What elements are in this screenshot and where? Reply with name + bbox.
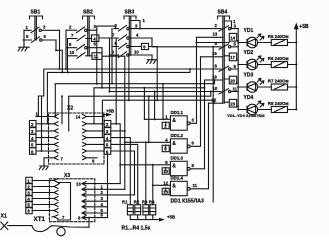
socket X2 left pin stubs 2-6 <box>36 124 49 151</box>
svg-text:3: 3 <box>101 196 104 201</box>
wire SB4 right common vertical <box>237 29 239 110</box>
switch SB1 stem <box>35 16 37 40</box>
wire SB3 row3 to H7 <box>156 47 158 101</box>
gate DD1.2 output wire <box>190 57 200 147</box>
svg-text:5: 5 <box>31 143 34 148</box>
wire SB2 row3 down <box>101 48 103 88</box>
wire X2 right bus down to X3 <box>107 154 109 217</box>
switch SB2 stem <box>88 16 90 56</box>
svg-text:1: 1 <box>165 114 168 119</box>
socket X2 right contact chevrons <box>83 115 105 160</box>
wire X2 row6 right to X3 <box>111 151 135 195</box>
svg-text:+5В: +5В <box>167 214 175 219</box>
wire H2 bus <box>47 69 190 124</box>
svg-text:2: 2 <box>69 25 72 30</box>
wire cable loop <box>57 227 65 235</box>
svg-text:11: 11 <box>233 86 238 91</box>
switch SB4 pin 1 stub <box>224 21 231 29</box>
svg-text:1: 1 <box>26 25 29 30</box>
gate DD1.4 body <box>170 181 187 195</box>
gate DD1.4 input wires <box>153 185 171 191</box>
switch SB4 row pin 16 and boxed 17 <box>201 56 223 58</box>
wire H3 bus <box>55 80 214 119</box>
svg-text:14: 14 <box>230 36 235 41</box>
wire R bottoms to +5V arrow <box>130 215 163 220</box>
svg-text:6: 6 <box>192 140 195 145</box>
socket X2 left pin1 stub <box>36 116 49 118</box>
svg-text:5: 5 <box>26 34 29 39</box>
wire SB1 row1 to bus <box>59 30 61 69</box>
gate DD1.4 output wire <box>190 103 208 189</box>
svg-text:10: 10 <box>163 169 168 174</box>
switch SB2 contact row pins 2-3 <box>66 27 97 33</box>
svg-text:3: 3 <box>43 24 46 29</box>
svg-text:X2: X2 <box>67 106 73 112</box>
svg-text:4: 4 <box>106 136 109 141</box>
switch SB3 pin 1 stub <box>131 21 140 29</box>
switch SB2 contact row pins 5-6 <box>66 45 102 51</box>
svg-text:9: 9 <box>234 64 237 69</box>
wire R3 pullup column <box>145 142 147 204</box>
wire H1 bus <box>38 69 221 117</box>
resistor R7 <box>271 84 287 90</box>
svg-text:9: 9 <box>165 160 168 165</box>
switch SB3 button cap <box>124 16 136 19</box>
svg-text:5: 5 <box>106 143 109 148</box>
gate DD1.1 body <box>170 116 187 130</box>
gate DD1.3 output wire <box>190 80 204 169</box>
svg-text:&: & <box>172 183 176 189</box>
wire SB3 drop to H7 <box>128 55 130 100</box>
svg-text:6: 6 <box>143 45 146 50</box>
switch SB2 contact row pin 7 to boxed 4 <box>68 35 92 41</box>
svg-text:6: 6 <box>27 209 30 214</box>
svg-text:R3: R3 <box>142 200 148 205</box>
switch SB4 contact row pins 10-11 <box>219 89 238 94</box>
socket X2 dashed body <box>49 113 105 164</box>
switch SB4 row pin 19 and boxed 20 <box>205 79 223 81</box>
wire SB2 boxed4 to bus <box>99 38 116 124</box>
wire XT1 cable <box>8 218 89 232</box>
svg-text:SB3: SB3 <box>125 10 135 16</box>
svg-text:2: 2 <box>106 122 109 127</box>
svg-text:R1...R4 1,5к: R1...R4 1,5к <box>122 226 151 232</box>
svg-text:5: 5 <box>164 147 167 152</box>
wire H4 bus <box>94 88 205 124</box>
switch SB4 contact row pins 2-3 <box>219 26 238 31</box>
wire X2 row3 right to X3 bus <box>111 131 125 189</box>
svg-text:6: 6 <box>44 34 47 39</box>
svg-text:10: 10 <box>70 50 75 55</box>
svg-text:X3: X3 <box>64 173 70 179</box>
wire LED1 feed line <box>197 41 239 43</box>
gate DD1.1 output wire <box>190 37 196 123</box>
resistor R1 <box>127 205 133 215</box>
svg-text:+5В: +5В <box>299 24 309 30</box>
svg-text:1: 1 <box>101 184 104 189</box>
switch SB3 stem <box>129 16 131 55</box>
svg-text:&: & <box>172 141 176 147</box>
gate DD1.1 input wires <box>144 119 170 125</box>
svg-text:3: 3 <box>31 129 34 134</box>
switch SB4 button cap <box>218 16 230 19</box>
switch SB4 row pin 22 and boxed 23 <box>209 102 223 104</box>
svg-text:YD3: YD3 <box>244 72 254 78</box>
socket X2 right boxed pins <box>104 121 111 128</box>
switch SB3 contact row pins 2-3 wire to SB4 <box>114 25 221 31</box>
socket X3 left pin stubs <box>32 181 49 211</box>
svg-text:DD1.1: DD1.1 <box>171 110 184 115</box>
wire filler vertical <box>212 47 214 202</box>
resistor R3 <box>143 205 149 215</box>
svg-text:6: 6 <box>94 41 97 46</box>
switch SB3 contact row pins 5-6 <box>112 43 157 49</box>
svg-text:DD1.4: DD1.4 <box>171 175 184 180</box>
svg-text:XT1: XT1 <box>34 216 46 223</box>
svg-text:10: 10 <box>134 49 139 54</box>
svg-text:R4: R4 <box>149 200 155 205</box>
svg-text:13: 13 <box>163 190 168 195</box>
socket X3 right pin wires to bus <box>88 184 135 218</box>
svg-text:SB4: SB4 <box>218 10 228 16</box>
svg-text:5: 5 <box>234 42 237 47</box>
socket X2 left contact chevrons <box>49 115 59 160</box>
svg-text:DD1.2: DD1.2 <box>171 133 184 138</box>
svg-text:Х1: Х1 <box>1 214 7 220</box>
svg-text:7: 7 <box>62 215 65 220</box>
switch SB4 stem <box>223 16 225 103</box>
svg-text:11: 11 <box>94 54 99 59</box>
svg-text:4: 4 <box>165 137 168 142</box>
socket X3 inner block <box>58 183 71 221</box>
svg-text:23: 23 <box>230 102 235 107</box>
svg-text:DD1.3: DD1.3 <box>171 155 184 160</box>
gate DD1.2 input wires <box>125 142 171 148</box>
switch SB1 button cap <box>30 16 43 19</box>
wire SB2 left commons <box>66 30 68 72</box>
svg-text:2: 2 <box>31 122 34 127</box>
wire SB2 row1 down and chain to SB3 <box>97 26 116 83</box>
svg-text:13: 13 <box>213 32 218 37</box>
svg-text:2: 2 <box>115 23 118 28</box>
svg-text:1: 1 <box>143 18 146 23</box>
wire SB3 row2 jog to SB4 pin4 <box>152 38 221 47</box>
svg-text:R2: R2 <box>134 200 140 205</box>
svg-text:+5В: +5В <box>106 108 114 113</box>
resistor R4 <box>150 205 156 215</box>
svg-text:8: 8 <box>215 63 218 68</box>
wire H6 bus <box>69 92 211 143</box>
socket X2 pin7 to ground <box>39 158 48 170</box>
socket X2 pin14 +5V arrow <box>103 115 111 117</box>
wire SB3 left common 1 down to H3 <box>111 47 113 84</box>
wire SB3 left common 2 down to H5 <box>109 55 111 92</box>
svg-text:8: 8 <box>192 163 195 168</box>
svg-text:YD1–YD4 АЛ307БМ: YD1–YD4 АЛ307БМ <box>227 113 265 118</box>
svg-text:3: 3 <box>106 129 109 134</box>
gate DD1.2 body <box>170 139 187 153</box>
svg-text:6: 6 <box>106 149 109 154</box>
gate DD1.3 input wires <box>120 165 170 171</box>
wire SB2 boxed11 to bus <box>102 56 125 131</box>
switch SB1 contact row pins 5-6 <box>23 37 56 43</box>
svg-text:YD1: YD1 <box>244 28 254 34</box>
switch SB4 contact row pins 8-9 <box>219 66 238 71</box>
switch SB2 contact row pin 10 to boxed 11 <box>68 53 93 59</box>
svg-text:6: 6 <box>31 149 34 154</box>
svg-text:11: 11 <box>193 183 198 188</box>
switch SB2 button cap <box>83 16 95 19</box>
svg-text:7: 7 <box>71 33 74 38</box>
svg-text:14: 14 <box>76 115 81 120</box>
svg-text:YD4: YD4 <box>244 95 254 101</box>
svg-text:7: 7 <box>61 157 64 162</box>
svg-text:3: 3 <box>234 23 237 28</box>
svg-text:2: 2 <box>215 23 218 28</box>
svg-text:2: 2 <box>101 190 104 195</box>
svg-text:13: 13 <box>76 182 81 187</box>
wire SB3 left commons <box>110 29 113 55</box>
svg-text:R1: R1 <box>122 200 128 205</box>
wire vertical into X2 left column <box>61 96 63 124</box>
svg-text:2: 2 <box>164 124 167 129</box>
wire X2 row2 right to X3 bus <box>111 124 120 184</box>
resistor R8 <box>271 107 287 113</box>
svg-text:4: 4 <box>136 32 139 37</box>
svg-text:YD2: YD2 <box>244 50 254 56</box>
switch SB3 contact row pins 9-10 <box>110 52 153 58</box>
ground under SB1 <box>18 45 29 51</box>
svg-text:8: 8 <box>92 158 95 163</box>
resistor R2 <box>135 205 141 215</box>
svg-text:8: 8 <box>78 216 81 221</box>
svg-text:R6 240Ом: R6 240Ом <box>268 56 289 61</box>
wire SB1 left common <box>23 30 25 44</box>
svg-text:5: 5 <box>69 42 72 47</box>
gate DD1.3 body <box>170 161 187 175</box>
svg-text:R5 240Ом: R5 240Ом <box>268 34 289 39</box>
switch SB4 contact row pins 4-5 <box>219 44 238 49</box>
socket X3 dashed body <box>49 179 94 222</box>
switch SB4 row pin 13 and boxed 14 <box>197 36 223 38</box>
svg-text:SB1: SB1 <box>31 10 41 16</box>
wire X2 row4 right to R1 <box>111 138 131 205</box>
svg-text:17: 17 <box>230 55 235 60</box>
svg-text:5: 5 <box>115 41 118 46</box>
wire SB1 row2 jog <box>56 40 62 72</box>
svg-text:R8 240Ом: R8 240Ом <box>268 101 289 106</box>
ground under SB3 <box>147 55 157 63</box>
switch SB3 contact row pin 7 boxed 4 <box>110 35 153 41</box>
wire H7 bus <box>102 100 214 137</box>
power +5V right rail <box>295 29 297 110</box>
wire vertical into X2 pin6 <box>41 96 43 151</box>
socket X3 left chevrons <box>49 179 58 219</box>
svg-text:3: 3 <box>192 117 195 122</box>
resistor R5 <box>271 40 287 46</box>
wire X2 row5 right to R2 <box>111 144 138 204</box>
svg-text:SB2: SB2 <box>83 10 93 16</box>
svg-text:&: & <box>172 163 176 169</box>
svg-text:R7 240Ом: R7 240Ом <box>268 78 289 83</box>
wire H5 bus <box>110 92 222 120</box>
switch SB1 contact row pins 1-3 <box>24 27 60 33</box>
svg-text:4: 4 <box>31 136 34 141</box>
socket X2 left boxed pins 2-6 <box>30 121 37 128</box>
svg-text:20: 20 <box>230 78 235 83</box>
svg-text:DD1 К155ЛА3: DD1 К155ЛА3 <box>171 199 204 205</box>
svg-text:3: 3 <box>94 24 97 29</box>
resistor R6 <box>271 62 287 68</box>
svg-text:12: 12 <box>163 180 168 185</box>
svg-text:3: 3 <box>135 23 138 28</box>
svg-text:&: & <box>172 118 176 124</box>
wire R4 pullup column <box>152 165 154 205</box>
socket X3 right chevrons <box>82 182 88 220</box>
